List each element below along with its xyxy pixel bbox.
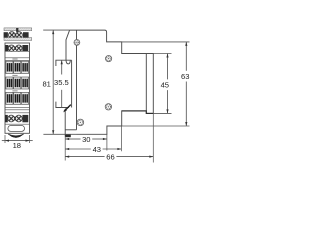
body separator line 2 [5, 57, 30, 59]
terminal row 3 center link [14, 117, 16, 121]
terminal row 2 center link [14, 47, 16, 50]
rivet circle top-right [106, 56, 112, 62]
rivet circle top-left [74, 40, 80, 46]
body separator line 3 [5, 59, 30, 61]
clip hook nose [66, 60, 70, 64]
terminal row 1 center link [15, 33, 17, 36]
top mounting hatched bar [4, 28, 32, 31]
dimension 63 [181, 42, 189, 126]
dimension 66 [65, 152, 153, 161]
extension line bottom (63) and mid-body bottom [122, 125, 190, 127]
svg-text:30: 30 [82, 135, 90, 144]
right extension (43) [120, 126, 122, 151]
bottom clip dark foot [65, 134, 71, 137]
dimension 81 [42, 30, 54, 134]
side view back face [76, 30, 78, 130]
top DIN release clip [66, 30, 70, 60]
body separator line 7 [5, 123, 30, 125]
svg-text:81: 81 [42, 80, 50, 89]
terminal screw B1 [8, 45, 14, 51]
terminal screw B2 [16, 45, 22, 51]
terminal row 2 left clamp block [5, 45, 8, 51]
svg-text:43: 43 [93, 145, 101, 154]
rivet circle bottom-right [105, 104, 111, 110]
terminal row 1 left clamp block [4, 32, 8, 38]
second hatched bar [4, 38, 32, 41]
DIN rail web [71, 60, 73, 107]
rivet circle bottom-left [77, 119, 84, 126]
extension line bottom (81) [43, 133, 76, 135]
terminal screw C2 [15, 115, 22, 122]
center knob on top bar [16, 28, 18, 32]
terminal row 1 right clamp block [23, 32, 29, 38]
extension line bottom (45) [153, 112, 171, 114]
inner bottom step of front section [122, 111, 154, 114]
DIN rail top flange [56, 60, 72, 66]
body separator line 5 [5, 109, 30, 111]
label strip between module rows 2-3 [12, 90, 17, 91]
label strip between module rows 1-2 [12, 75, 17, 76]
bottom DIN clip (side) [64, 110, 66, 137]
body separator line 4 [5, 106, 30, 108]
terminal screw A2 [16, 32, 23, 39]
module row 2 [6, 77, 29, 89]
right extension (66) [152, 113, 154, 162]
extension line top (63) [122, 41, 190, 43]
front inner edge line [145, 54, 147, 111]
stadium window [8, 126, 25, 132]
right extension (30) [106, 134, 108, 150]
dimension 43 [65, 145, 121, 154]
dimension 18 [2, 135, 33, 150]
svg-text:66: 66 [106, 152, 114, 161]
bottom clip ledge [65, 129, 76, 131]
module row 1 [6, 61, 29, 73]
terminal screw C1 [8, 115, 15, 122]
svg-text:35.5: 35.5 [54, 78, 69, 87]
left extension for bottom dims [64, 137, 66, 161]
extension line top (81) [43, 29, 69, 31]
tiny label mark above modules [12, 58, 17, 59]
svg-text:63: 63 [181, 72, 189, 81]
side view outline [70, 30, 154, 134]
terminal row 2 right clamp block [22, 45, 28, 51]
terminal row 3 left clamp block [5, 115, 8, 122]
terminal screw A1 [9, 32, 16, 39]
terminal row 3 right clamp block [22, 115, 28, 122]
DIN rail bottom flange [56, 102, 69, 108]
svg-text:18: 18 [13, 141, 21, 150]
dimension 35.5 [54, 60, 71, 112]
dimension 45 [161, 54, 169, 114]
front body outline [5, 43, 30, 133]
bottom clip arc (front view) [8, 134, 24, 138]
module row 3 [6, 92, 29, 104]
body separator line 6 [5, 112, 30, 114]
body separator line 1 [5, 50, 30, 52]
svg-text:45: 45 [161, 81, 169, 90]
dimension 30 [65, 135, 107, 144]
extension line top (45) [153, 53, 171, 55]
